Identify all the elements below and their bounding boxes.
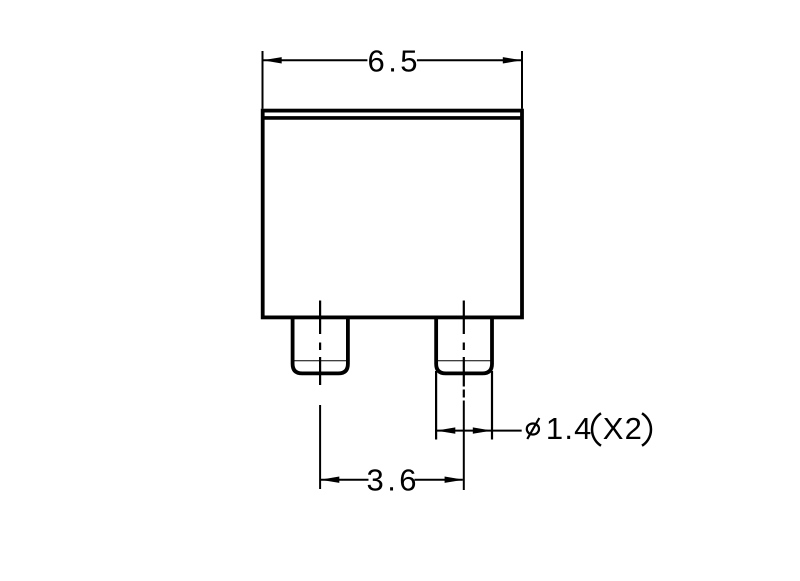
svg-text:1.4: 1.4 [546,411,593,446]
svg-text:6.5: 6.5 [368,44,421,79]
pin 2 tip tangent edge [436,360,492,362]
pin 2 (right) outline [436,318,492,373]
pin 2 centerline [463,301,465,398]
component body outline [263,111,522,318]
diameter symbol of dia 1.4(X2) label [527,418,539,439]
dimension 6.5 extension line right [521,51,523,109]
dimension 3.6 line [321,479,463,481]
svg-text:3.6: 3.6 [367,463,420,498]
dimension dia 1.4(X2) text: open paren [592,413,601,445]
dimension dia 1.4 line and leader [436,430,522,432]
dimension 6.5 line [264,59,522,61]
dimension 6.5 arrow left [263,57,282,63]
dimension 3.6 arrow left [320,477,339,483]
pin 1 (left) outline [293,318,348,373]
dimension 3.6 extension line right [463,401,465,491]
dimension 6.5 extension line left [262,51,264,109]
dimension dia 1.4 arrow left [436,427,455,433]
svg-text:X2: X2 [603,411,643,446]
body top seam line [263,116,522,120]
pin 1 centerline [319,301,321,386]
dimension dia 1.4 extension line right [491,371,493,440]
pin 1 tip tangent edge [293,360,348,362]
dimension 3.6 arrow right [445,477,464,483]
dimension dia 1.4(X2) text: close paren [642,413,651,445]
dimension dia 1.4 arrow right [473,427,492,433]
dimension 6.5 arrow right [503,57,522,63]
dimension dia 1.4 extension line left [435,371,437,440]
dimension 3.6 extension line left [319,405,321,489]
